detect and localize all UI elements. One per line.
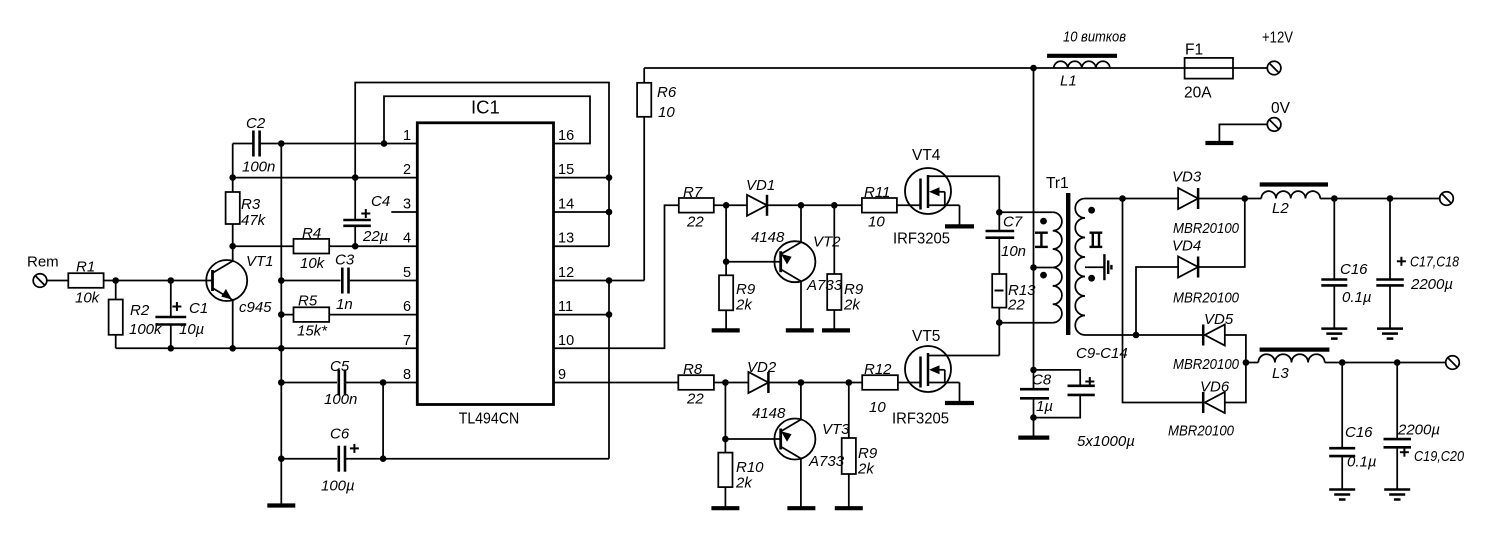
svg-text:R1: R1	[76, 259, 95, 276]
node junction VD1 / VT2 emitter	[798, 202, 805, 209]
node junction VT3 base tee	[722, 436, 729, 443]
wire R8 to VD2	[714, 382, 749, 384]
resistor R4	[294, 225, 330, 272]
svg-text:R4: R4	[302, 225, 321, 242]
wire primary bottom lead	[999, 322, 1052, 324]
diode VD2 4148	[747, 359, 786, 422]
svg-text:C19,C20: C19,C20	[1414, 448, 1465, 465]
wire VD2 to R12	[768, 382, 862, 384]
ground chassis bar under R10	[711, 506, 739, 510]
wire pin6 row	[281, 314, 417, 316]
wire L3 to terminal	[1325, 362, 1446, 364]
svg-text:1n: 1n	[336, 296, 353, 313]
svg-text:MBR20100: MBR20100	[1168, 423, 1235, 440]
capacitor C8	[1020, 372, 1053, 438]
capacitor C17,C18 2200u	[1376, 199, 1459, 329]
svg-text:13: 13	[558, 231, 574, 247]
terminal 0V	[1219, 118, 1280, 143]
wire pin1 row	[281, 143, 417, 145]
wire pin13	[554, 245, 610, 247]
transformer Tr1 secondary winding II	[1075, 199, 1095, 336]
node junction pin5 / vertical A	[278, 277, 285, 284]
svg-text:15k*: 15k*	[297, 323, 328, 340]
node junction C7 top / VT4 drain	[996, 209, 1003, 216]
wire VT4 drain to C7 top	[998, 176, 1000, 212]
node junction pin7 / vertical A	[278, 345, 285, 352]
diode VD4 MBR20100	[1136, 199, 1245, 336]
svg-text:3: 3	[403, 197, 411, 213]
wire pin4 row	[233, 245, 418, 247]
svg-text:0V: 0V	[1271, 100, 1291, 117]
node junction R8/R10	[722, 379, 729, 386]
inductor L3	[1258, 350, 1329, 382]
node junction pin14	[606, 209, 613, 216]
svg-text:10: 10	[558, 333, 574, 349]
transformer Tr1 core	[1066, 193, 1070, 335]
node winding II numeral label	[1090, 233, 1103, 247]
node junction pin2 / C4 column	[352, 174, 359, 181]
resistor R11	[862, 184, 897, 231]
resistor R3	[226, 178, 267, 247]
wire VD1 to R11	[767, 204, 862, 206]
svg-text:IC1: IC1	[471, 97, 500, 118]
svg-text:IRF3205: IRF3205	[892, 411, 949, 428]
resistor R9 (lower, 2k)	[842, 383, 878, 509]
wire pin14	[554, 211, 610, 213]
svg-text:22: 22	[686, 391, 704, 408]
resistor R12	[862, 361, 898, 416]
svg-text:VT4: VT4	[912, 147, 941, 164]
resistor R9 (left, 2k)	[719, 205, 756, 330]
node junction C5 right / pin8	[380, 379, 387, 386]
transistor VT5 IRF3205 MOSFET	[892, 328, 999, 428]
node junction pin4 / C4 bottom	[352, 243, 359, 250]
wire centre-tap drop from top rail	[1033, 68, 1035, 268]
svg-text:11: 11	[558, 299, 573, 315]
svg-text:47k: 47k	[241, 212, 267, 229]
svg-text:20A: 20A	[1184, 85, 1212, 102]
svg-text:16: 16	[558, 128, 574, 144]
node junction R9c top	[846, 379, 853, 386]
node junction secondary top / VD6 column	[1119, 195, 1126, 202]
svg-text:1: 1	[403, 128, 411, 144]
resistor R2	[109, 281, 163, 349]
svg-text:c945: c945	[239, 299, 272, 316]
svg-text:C16: C16	[1340, 261, 1368, 278]
wire secondary top rail	[1085, 198, 1178, 200]
ground chassis bar 0V	[1205, 141, 1233, 145]
svg-text:10µ: 10µ	[179, 321, 204, 338]
svg-text:C17,C18: C17,C18	[1410, 254, 1460, 271]
node junction top rail / transformer centre-tap drop	[1030, 65, 1037, 72]
svg-text:10: 10	[658, 104, 675, 121]
svg-text:2k: 2k	[857, 461, 875, 478]
wire C6 row up to pin11 chain	[608, 281, 610, 459]
svg-text:VT2: VT2	[813, 234, 841, 251]
resistor R10	[718, 383, 764, 509]
resistor R8	[678, 361, 714, 408]
wire bottom row R2 to IC pin7	[116, 347, 418, 349]
inductor L1 10 vitkov	[1047, 29, 1126, 90]
capacitor C1	[155, 281, 208, 349]
svg-text:C6: C6	[330, 426, 350, 443]
svg-text:100n: 100n	[242, 159, 275, 176]
svg-text:F1: F1	[1185, 42, 1203, 59]
wire VD3 cathode to L2	[1198, 198, 1261, 200]
svg-text:4148: 4148	[752, 405, 786, 422]
terminal output lower	[1446, 356, 1460, 370]
capacitor C3	[335, 252, 355, 314]
svg-text:C5: C5	[330, 358, 350, 375]
svg-text:C4: C4	[371, 193, 390, 210]
svg-text:10 витков: 10 витков	[1063, 29, 1126, 46]
node junction VT2 base tee	[723, 258, 730, 265]
svg-text:VT3: VT3	[822, 421, 850, 438]
capacitor C16 (lower 0.1u)	[1329, 363, 1376, 490]
svg-text:VD5: VD5	[1204, 311, 1234, 328]
transistor VT4 IRF3205 MOSFET	[893, 147, 999, 248]
svg-text:4148: 4148	[751, 229, 785, 246]
svg-text:R2: R2	[130, 302, 150, 319]
node junction R13 bottom / VT5 drain	[996, 319, 1003, 326]
svg-text:MBR20100: MBR20100	[1173, 356, 1240, 373]
svg-text:15: 15	[558, 162, 574, 178]
svg-text:R5: R5	[298, 293, 318, 310]
capacitor C4	[343, 178, 390, 247]
ground chassis bar under VT3	[787, 506, 815, 510]
svg-text:R8: R8	[683, 361, 703, 378]
node junction R3 top / C2 left	[229, 174, 236, 181]
svg-text:10: 10	[869, 399, 886, 416]
node junction centre tap	[1030, 264, 1037, 271]
node junction pin1 / vertical A	[278, 140, 285, 147]
diode VD6 MBR20100	[1168, 363, 1246, 440]
ground earth under upper C16	[1321, 329, 1347, 339]
svg-text:12: 12	[558, 265, 574, 281]
svg-text:C8: C8	[1032, 372, 1052, 389]
ground chassis bar under R9 right	[822, 328, 850, 332]
wire vertical A (pin1 to ground)	[280, 144, 282, 506]
node junction C6 right	[380, 455, 387, 462]
capacitor C19,C20 2200u	[1384, 363, 1465, 490]
wire R12 to VT5 gate	[898, 382, 921, 384]
wire VT5 drain to R13 bottom	[998, 323, 1000, 356]
wire pin15	[554, 177, 610, 179]
node junction C17,C18 top	[1387, 195, 1394, 202]
capacitor C5	[324, 358, 357, 408]
node junction C6 left / vertical A	[278, 455, 285, 462]
svg-text:IRF3205: IRF3205	[893, 231, 950, 248]
svg-text:Tr1: Tr1	[1046, 175, 1069, 192]
svg-text:5x1000µ: 5x1000µ	[1077, 433, 1135, 450]
node junction VT1 emitter	[229, 345, 236, 352]
svg-text:9: 9	[558, 367, 566, 383]
ground earth under lower C16	[1329, 490, 1355, 500]
svg-text:C3: C3	[335, 252, 355, 269]
wire inner loop pin1 to pin16	[384, 96, 590, 143]
svg-text:0.1µ: 0.1µ	[1347, 454, 1377, 471]
svg-text:2k: 2k	[843, 297, 861, 314]
svg-text:22µ: 22µ	[362, 228, 388, 245]
node junction VD2 / VT3 emitter	[798, 379, 805, 386]
resistor R7	[679, 184, 714, 231]
svg-text:R3: R3	[241, 196, 261, 213]
wire pin8 row	[281, 382, 417, 384]
svg-text:VD1: VD1	[746, 177, 775, 194]
fuse F1 20A	[1184, 42, 1233, 102]
svg-text:14: 14	[558, 197, 574, 213]
ground earth under C17,C18	[1377, 329, 1403, 339]
ground chassis bar under R9 left	[712, 328, 740, 332]
wire VD6 column down	[1123, 199, 1204, 403]
node junction lower C16 top	[1339, 359, 1346, 366]
inductor L2	[1260, 185, 1328, 218]
wire pin11	[554, 314, 610, 316]
svg-text:A733: A733	[808, 453, 845, 470]
terminal +12V	[1267, 61, 1281, 75]
svg-text:2200µ: 2200µ	[1397, 422, 1440, 439]
node junction VD3/VD4 cathodes	[1242, 195, 1249, 202]
wire pin12 to R6 bottom	[554, 280, 645, 282]
wire R1 to VT1 base	[104, 280, 213, 282]
svg-text:100n: 100n	[324, 391, 357, 408]
svg-text:R10: R10	[736, 459, 764, 476]
node winding I numeral label	[1035, 233, 1048, 247]
node junction pin11	[606, 311, 613, 318]
svg-text:4: 4	[403, 231, 411, 247]
wire VT3 base	[725, 438, 780, 440]
transistor VT1 c945	[206, 246, 273, 348]
svg-text:Rem: Rem	[27, 254, 59, 271]
svg-text:2k: 2k	[735, 475, 753, 492]
wire L2 to terminal	[1320, 198, 1440, 200]
svg-text:10k: 10k	[75, 290, 101, 307]
svg-text:L2: L2	[1272, 200, 1289, 217]
svg-text:10k: 10k	[300, 255, 326, 272]
wire outer loop (pin2 column up and over to pin15 chain)	[355, 83, 609, 247]
svg-text:+12V: +12V	[1262, 30, 1294, 47]
ground chassis bar under C8	[1018, 436, 1049, 440]
svg-text:MBR20100: MBR20100	[1173, 220, 1240, 237]
pin 3 stub	[391, 211, 417, 213]
node junction C8 top	[1030, 367, 1037, 374]
svg-text:2: 2	[403, 162, 411, 178]
capacitor C9-C14 5x1000u	[1034, 345, 1135, 450]
diode VD3 MBR20100	[1172, 169, 1240, 238]
resistor R6	[637, 68, 677, 281]
resistor R13	[992, 274, 1036, 323]
svg-text:8: 8	[403, 367, 411, 383]
ground chassis bar under VT5 source	[945, 401, 974, 405]
svg-text:5: 5	[403, 265, 411, 281]
svg-text:10n: 10n	[1001, 243, 1026, 260]
svg-text:0.1µ: 0.1µ	[1342, 289, 1372, 306]
wire C5 right to C6 right	[382, 383, 384, 459]
terminal Rem	[33, 274, 68, 288]
transistor VT2 A733	[774, 205, 841, 330]
svg-text:2k: 2k	[735, 297, 753, 314]
node junction R3 bottom / VT1 collector	[229, 243, 236, 250]
wire secondary centre tap stub	[1085, 266, 1104, 268]
wire pin10 up to R7 row	[554, 205, 679, 348]
node junction C8 bottom	[1030, 414, 1037, 421]
op-amp / PWM IC U1 box IC1 TL494CN	[417, 97, 553, 428]
svg-text:TL494CN: TL494CN	[459, 411, 520, 428]
terminal output upper	[1440, 192, 1454, 206]
svg-text:C1: C1	[189, 300, 208, 317]
wire pin5 row	[281, 280, 417, 282]
svg-text:C16: C16	[1345, 424, 1373, 441]
node junction pin15	[606, 174, 613, 181]
wire pin9 to R8	[554, 382, 679, 384]
node junction R9b top	[831, 202, 838, 209]
node junction pin1 / inner loop	[381, 140, 388, 147]
svg-text:VD4: VD4	[1172, 238, 1201, 255]
wire secondary bottom rail	[1085, 334, 1203, 336]
diode VD5 MBR20100	[1173, 311, 1246, 373]
svg-text:VT5: VT5	[912, 328, 940, 345]
transistor VT3 A733	[774, 383, 850, 509]
svg-text:C7: C7	[1003, 214, 1023, 231]
ground chassis bar under VT4 source	[945, 224, 974, 228]
transformer Tr1 primary winding I	[1040, 212, 1062, 322]
node junction R1/R2	[112, 277, 119, 284]
diode VD1 4148	[746, 177, 785, 246]
wire R7 to VD1	[714, 204, 747, 206]
capacitor C16 (upper 0.1u)	[1321, 199, 1371, 329]
wire C6 row	[281, 458, 609, 460]
wire to L3	[1246, 362, 1258, 364]
node junction pin6 / vertical A	[278, 311, 285, 318]
capacitor C7	[986, 212, 1027, 274]
svg-text:22: 22	[1007, 297, 1025, 314]
wire primary centre tap	[1034, 267, 1053, 269]
node junction R7/R9	[723, 202, 730, 209]
ground chassis bar under lower R9	[835, 506, 863, 510]
capacitor C2	[233, 115, 282, 178]
svg-text:2200µ: 2200µ	[1410, 276, 1453, 293]
svg-text:VD3: VD3	[1172, 169, 1202, 186]
node junction C5 left / vertical A	[278, 379, 285, 386]
svg-text:L3: L3	[1272, 365, 1289, 382]
wire R11 to VT4 gate	[897, 204, 921, 206]
svg-text:6: 6	[403, 299, 411, 315]
svg-text:10: 10	[868, 214, 885, 231]
svg-text:R9: R9	[736, 281, 756, 298]
ground earth under C19,C20	[1384, 490, 1410, 500]
ground earth (sideways) at secondary centre tap	[1104, 254, 1111, 280]
node junction C19,C20 top	[1394, 359, 1401, 366]
svg-text:L1: L1	[1060, 73, 1077, 90]
resistor R9 (right, 2k)	[827, 205, 864, 330]
svg-text:R11: R11	[864, 184, 890, 201]
wire VT2 base	[726, 261, 781, 263]
svg-text:R7: R7	[683, 184, 703, 201]
svg-text:C2: C2	[246, 115, 266, 132]
svg-text:VD6: VD6	[1200, 379, 1230, 396]
svg-text:R12: R12	[864, 361, 892, 378]
wire pin2 row	[233, 177, 418, 179]
svg-text:7: 7	[403, 333, 411, 349]
svg-text:1µ: 1µ	[1036, 398, 1053, 415]
svg-text:A733: A733	[806, 277, 843, 294]
svg-text:R6: R6	[657, 84, 677, 101]
svg-text:R9: R9	[858, 445, 878, 462]
node junction VD5/VD6 anodes / L3	[1243, 359, 1250, 366]
node junction C1 bottom	[168, 345, 175, 352]
node junction pin12	[606, 277, 613, 284]
resistor R1	[68, 259, 103, 307]
wire primary top lead	[999, 211, 1052, 213]
svg-text:VD2: VD2	[747, 359, 777, 376]
svg-text:VT1: VT1	[246, 253, 274, 270]
capacitor C6	[321, 426, 359, 495]
wire C8 column	[1033, 268, 1035, 390]
svg-text:MBR20100: MBR20100	[1173, 290, 1240, 307]
node junction bottom rail / VD4 column	[1133, 332, 1140, 339]
ground chassis bar bottom-left	[267, 503, 295, 507]
pin number labels left 1-8	[403, 128, 411, 383]
node junction C1 top	[168, 277, 175, 284]
pin number labels right 16-9	[558, 128, 574, 383]
svg-text:100µ: 100µ	[321, 478, 355, 495]
svg-text:C9-C14: C9-C14	[1076, 345, 1128, 362]
resistor R5	[294, 293, 330, 340]
svg-text:R9: R9	[844, 281, 864, 298]
wire +12V top rail	[644, 67, 1267, 69]
node junction C16 top	[1331, 195, 1338, 202]
svg-text:22: 22	[686, 214, 704, 231]
ground chassis bar under VT2	[786, 328, 814, 332]
